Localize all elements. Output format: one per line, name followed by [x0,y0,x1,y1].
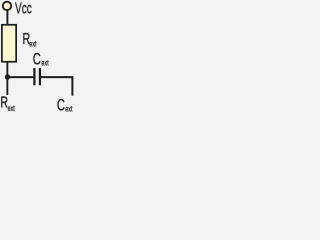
svg-text:ext: ext [8,104,15,114]
svg-text:ext: ext [65,104,72,114]
svg-text:C: C [33,49,41,68]
svg-text:C: C [57,95,65,114]
svg-text:ext: ext [29,39,36,49]
svg-text:ext: ext [41,59,48,69]
svg-text:Vcc: Vcc [15,0,32,17]
